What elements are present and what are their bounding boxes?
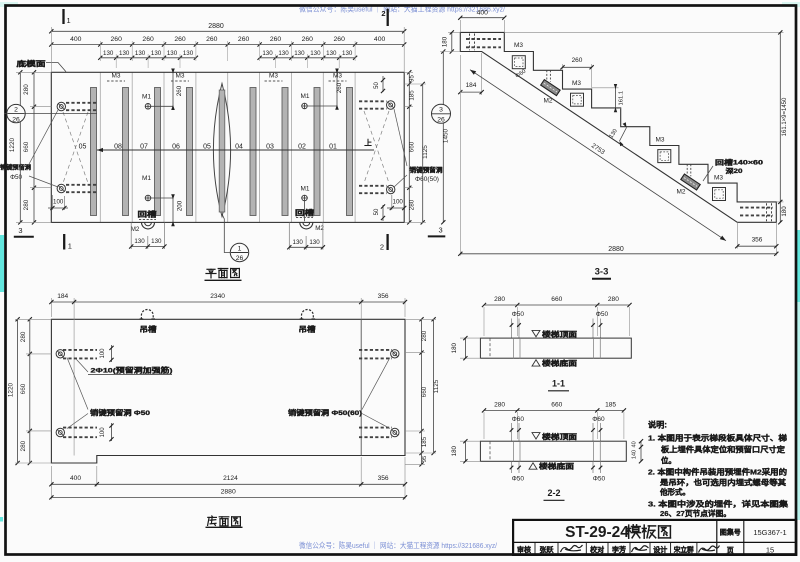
svg-text:回槽: 回槽: [295, 208, 314, 217]
bottom view 184 boundary line: [73, 319, 75, 455]
bottom view anchor top-left: [63, 349, 97, 351]
svg-text:50: 50: [374, 208, 380, 215]
svg-text:660: 660: [551, 296, 562, 303]
svg-text:Φ50: Φ50: [512, 311, 525, 318]
svg-text:楼梯底面: 楼梯底面: [542, 358, 577, 367]
svg-text:185: 185: [605, 401, 616, 408]
svg-text:100: 100: [100, 427, 106, 438]
svg-text:130: 130: [342, 50, 353, 57]
plan top dim extension verticals: [50, 27, 52, 72]
svg-text:楼梯顶面: 楼梯顶面: [542, 330, 577, 339]
section 3-3 dim 161.1 riser: [592, 87, 619, 89]
section 2-2 level mark bottom face: [529, 463, 537, 469]
svg-text:M3: M3: [269, 73, 278, 80]
svg-text:130: 130: [151, 238, 162, 245]
svg-text:15G367-1: 15G367-1: [753, 528, 786, 537]
section 3-3 stair outline: [460, 32, 776, 222]
svg-text:M1: M1: [300, 186, 309, 193]
svg-text:280: 280: [608, 296, 619, 303]
detail bubble 1/26: [222, 214, 230, 253]
svg-text:260: 260: [238, 36, 250, 43]
svg-text:07: 07: [140, 144, 148, 151]
signature scribble 3: [699, 546, 720, 553]
bottom view 356 divider: [360, 319, 362, 455]
section 3-3 M3 anchor box step3: [571, 93, 584, 106]
svg-text:M2: M2: [676, 189, 685, 196]
plan view outline: [51, 72, 404, 222]
svg-text:校对: 校对: [590, 545, 604, 554]
svg-text:05: 05: [79, 144, 87, 151]
plan right extension lines: [404, 71, 413, 73]
plan M2 hook left: [142, 222, 155, 229]
label shang: [365, 139, 371, 145]
plan rail pairs: [91, 88, 97, 216]
detail bubble 3/26: [432, 104, 451, 123]
svg-text:260: 260: [336, 82, 343, 93]
svg-text:26: 26: [437, 117, 445, 124]
svg-text:130: 130: [309, 239, 320, 246]
svg-text:1220: 1220: [9, 137, 16, 152]
svg-text:95: 95: [410, 75, 416, 82]
plan top dim 2880: [51, 30, 404, 32]
section 3-3 dim 180 left: [448, 31, 460, 33]
svg-text:M3: M3: [111, 73, 120, 80]
svg-text:660: 660: [20, 383, 27, 394]
svg-text:ST-29-24: ST-29-24: [565, 524, 629, 541]
svg-text:180: 180: [781, 206, 788, 217]
bottom view bottom dim 400-2124-356: [50, 466, 52, 500]
svg-text:260: 260: [572, 57, 583, 64]
svg-text:底模面: 底模面: [17, 59, 46, 68]
svg-text:张跃: 张跃: [540, 545, 554, 554]
section mark 1 top: [62, 9, 64, 24]
plan up-direction line: [97, 149, 374, 151]
section 1-1 dim 180: [460, 337, 480, 339]
svg-text:95: 95: [422, 456, 428, 462]
svg-text:M1: M1: [300, 93, 309, 100]
svg-text:26: 26: [236, 255, 244, 262]
section 3-3 M2 plate lower on soffit: [681, 174, 700, 190]
svg-text:130: 130: [135, 50, 146, 57]
svg-text:260: 260: [206, 36, 218, 43]
bottom view left extensions: [15, 318, 51, 320]
svg-text:2124: 2124: [223, 475, 238, 482]
svg-text:130: 130: [167, 50, 178, 57]
bottom view right extensions: [405, 318, 436, 320]
bottom view left chain 1220: [17, 319, 19, 463]
cyan smudge top-right corner: [782, 2, 800, 7]
svg-text:185: 185: [421, 436, 428, 447]
svg-text:M2: M2: [543, 98, 552, 105]
svg-text:板上埋件具体定位和预留口尺寸定: 板上埋件具体定位和预留口尺寸定: [661, 444, 786, 454]
svg-text:40: 40: [632, 441, 638, 447]
section 3-3 M3 anchor box step6: [658, 150, 671, 163]
bottom view 100 dim bottom-left: [111, 423, 113, 441]
section 3-3 bottom landing anchor: [740, 207, 773, 209]
plan tread divider lines: [99, 72, 101, 222]
svg-text:06: 06: [172, 144, 180, 151]
svg-text:Φ50: Φ50: [596, 311, 609, 318]
title block bottom row cells: [534, 542, 536, 555]
title block dividers: [513, 541, 796, 543]
svg-text:08: 08: [114, 144, 122, 151]
svg-text:微信公众号：陈昊useful ｜ 网站：大猫工程资源 htt: 微信公众号：陈昊useful ｜ 网站：大猫工程资源 https://32168…: [299, 540, 498, 550]
svg-text:销键预留洞 Φ50(60): 销键预留洞 Φ50(60): [288, 408, 362, 417]
plan title: [206, 269, 216, 278]
section 3-3 dim 2753 diagonal: [470, 70, 726, 241]
svg-text:Φ60(50): Φ60(50): [415, 176, 439, 183]
section 3-3 dim 400 top: [459, 20, 461, 32]
section 3-3 right chain 161.1x9: [504, 31, 783, 33]
title block outer frame: [513, 520, 796, 555]
svg-text:26、27页节点详图。: 26、27页节点详图。: [660, 508, 731, 518]
svg-text:180: 180: [451, 445, 458, 456]
svg-text:Φ50: Φ50: [512, 475, 525, 482]
svg-text:2. 本图中构件吊装用预埋件M2采用的: 2. 本图中构件吊装用预埋件M2采用的: [648, 467, 788, 477]
svg-text:280: 280: [20, 331, 27, 342]
svg-text:位。: 位。: [661, 455, 676, 465]
svg-text:回槽: 回槽: [138, 210, 157, 219]
svg-text:130: 130: [103, 50, 114, 57]
cyan strip left margin: [0, 235, 4, 292]
svg-text:05: 05: [203, 144, 211, 151]
svg-text:回槽140×60: 回槽140×60: [715, 158, 764, 167]
svg-text:2: 2: [381, 9, 385, 18]
section 3-3 dim 2880 bottom: [459, 55, 461, 256]
svg-text:260: 260: [174, 36, 186, 43]
svg-text:Φ60: Φ60: [592, 416, 605, 423]
svg-text:2880: 2880: [208, 23, 224, 30]
svg-text:130: 130: [326, 50, 337, 57]
section 3-3 M3 anchor box step8: [713, 188, 726, 201]
svg-text:销键预留洞: 销键预留洞: [0, 164, 31, 172]
svg-text:130: 130: [294, 50, 305, 57]
svg-text:185: 185: [409, 90, 416, 101]
svg-text:3. 本图中涉及的埋件，详见本图集: 3. 本图中涉及的埋件，详见本图集: [648, 498, 789, 508]
svg-text:M3: M3: [714, 175, 723, 182]
svg-text:吊槽: 吊槽: [299, 325, 316, 334]
svg-text:280: 280: [23, 84, 30, 95]
svg-text:100: 100: [53, 199, 64, 206]
svg-text:260: 260: [142, 36, 154, 43]
plan anchor tie dashed diagonals right: [364, 111, 389, 183]
svg-text:200: 200: [177, 200, 184, 211]
svg-text:280: 280: [20, 440, 27, 451]
section 3-3 dim 356 bottom: [736, 222, 738, 248]
svg-text:楼梯底面: 楼梯底面: [539, 462, 574, 471]
bottom view hanger hook right: [302, 310, 314, 320]
svg-text:356: 356: [378, 293, 389, 300]
svg-text:楼梯顶面: 楼梯顶面: [542, 432, 577, 441]
svg-text:M1: M1: [142, 94, 151, 101]
signature scribble 1: [561, 545, 583, 552]
svg-text:130: 130: [293, 239, 304, 246]
section 2-2 dim 180: [460, 440, 480, 442]
svg-text:3: 3: [439, 107, 443, 114]
bottom view anchor bottom-left: [63, 427, 97, 429]
plan left dim chain 1220: [19, 72, 21, 222]
svg-text:1. 本图用于表示梯段板具体尺寸、梯: 1. 本图用于表示梯段板具体尺寸、梯: [648, 433, 788, 443]
signature scribble 2: [632, 546, 649, 552]
cyan strip right margin faint: [797, 302, 800, 520]
cyan strip right margin: [796, 230, 800, 302]
plan right dim chain 1125: [422, 84, 424, 222]
section 3-3 dim 260 tread: [562, 64, 564, 69]
svg-text:销键预留洞: 销键预留洞: [410, 165, 444, 174]
svg-text:161.1×9=1450: 161.1×9=1450: [782, 97, 788, 136]
plan M2 hook right: [300, 222, 313, 229]
svg-text:M3: M3: [572, 80, 581, 87]
svg-text:280: 280: [494, 296, 505, 303]
bottom view 100 dim top-left: [111, 345, 113, 362]
svg-text:1450: 1450: [443, 128, 450, 143]
svg-text:180: 180: [441, 36, 448, 47]
section 3-3 dim 1450 left chain: [442, 52, 444, 223]
svg-text:M3: M3: [333, 73, 342, 80]
bottom view hanger hook left: [141, 310, 153, 320]
plan left extension lines: [16, 71, 51, 73]
svg-text:130: 130: [278, 50, 289, 57]
svg-text:260: 260: [176, 85, 183, 96]
bottom view left chain 280-660-280: [29, 319, 31, 463]
section 3-3 M3 anchor box step1: [512, 56, 525, 69]
svg-text:280: 280: [409, 199, 416, 210]
svg-text:1: 1: [238, 245, 242, 252]
svg-text:2Φ10(预留洞加强筋): 2Φ10(预留洞加强筋): [91, 365, 173, 374]
section 3-3 dim 184: [481, 53, 483, 95]
svg-text:1: 1: [68, 242, 72, 251]
svg-text:M3: M3: [655, 137, 664, 144]
cyan dash left margin low: [0, 517, 3, 522]
svg-text:280: 280: [421, 330, 428, 341]
svg-text:深20: 深20: [726, 166, 743, 175]
svg-text:130: 130: [310, 50, 321, 57]
svg-text:660: 660: [409, 141, 416, 152]
section 1-1 top dim 280-660-280: [484, 304, 630, 306]
svg-text:260: 260: [270, 36, 282, 43]
svg-text:140: 140: [632, 450, 638, 459]
svg-text:M3: M3: [514, 42, 523, 49]
svg-text:销键预留洞 Φ50: 销键预留洞 Φ50: [90, 408, 150, 417]
svg-text:审核: 审核: [517, 545, 531, 554]
plan anchor upper-left: [66, 102, 97, 104]
svg-text:100: 100: [393, 199, 404, 206]
svg-text:260: 260: [302, 36, 314, 43]
plan anchor lower-right: [359, 185, 387, 187]
section 2-2 top dim 280-660-185: [484, 409, 624, 411]
section mark 2 bottom: [386, 234, 388, 250]
svg-text:260: 260: [334, 36, 346, 43]
svg-text:130: 130: [151, 50, 162, 57]
svg-text:130: 130: [183, 50, 194, 57]
svg-text:1: 1: [67, 16, 71, 25]
plan right dim chain 95-185-660-280: [408, 72, 410, 222]
section 3-3 top landing anchor: [466, 38, 501, 40]
svg-text:他形式。: 他形式。: [659, 487, 690, 497]
svg-text:356: 356: [378, 475, 389, 482]
svg-text:1125: 1125: [422, 145, 429, 159]
svg-text:400: 400: [374, 36, 386, 43]
svg-text:宋立群: 宋立群: [673, 545, 694, 554]
svg-text:02: 02: [298, 144, 306, 151]
bottom view outline: [51, 319, 405, 463]
plan anchor upper-right: [359, 100, 387, 102]
section 3-3 dim 130 inclined: [620, 128, 627, 142]
svg-text:说明:: 说明:: [648, 420, 667, 430]
plan center lens: [213, 84, 230, 217]
bottom view dim 2880: [51, 496, 405, 498]
svg-text:01: 01: [329, 144, 337, 151]
section 1-1 level mark bottom face: [532, 360, 540, 366]
section 3-3 M2 plate upper on soffit: [541, 80, 560, 96]
svg-text:356: 356: [752, 237, 763, 244]
svg-text:M2: M2: [131, 226, 140, 233]
svg-text:180: 180: [451, 342, 458, 353]
svg-text:M3: M3: [175, 73, 184, 80]
svg-text:130: 130: [119, 50, 130, 57]
svg-text:M1: M1: [142, 175, 151, 182]
detail bubble 2/26: [5, 113, 8, 115]
section mark 2 top: [387, 9, 389, 26]
svg-text:李芳: 李芳: [611, 545, 626, 554]
plan top dim row 400/260: [51, 44, 404, 46]
bottom view top dim 184-2340-356: [50, 298, 52, 317]
svg-text:660: 660: [551, 401, 562, 408]
svg-text:2: 2: [14, 107, 18, 114]
svg-text:280: 280: [494, 401, 505, 408]
plan anchor tie dashed diagonals left: [63, 112, 88, 183]
svg-text:1125: 1125: [433, 379, 440, 393]
bottom view right chain 1125: [433, 319, 435, 453]
svg-text:04: 04: [235, 144, 243, 151]
section 2-2 slab bar: [480, 441, 626, 461]
svg-text:130: 130: [262, 50, 273, 57]
section 2-2 level mark top face: [532, 433, 540, 439]
svg-text:100: 100: [100, 348, 106, 359]
plan top dim row 130 pairs: [100, 57, 196, 59]
svg-text:是吊环，也可选用内埋式螺母等其: 是吊环，也可选用内埋式螺母等其: [659, 477, 787, 487]
svg-text:3-3: 3-3: [595, 267, 609, 278]
svg-text:图集号: 图集号: [720, 528, 741, 537]
section 1-1 slab bar: [480, 338, 631, 358]
plan rails inside lens: [219, 90, 225, 212]
plan 50 dims right: [382, 76, 384, 92]
svg-text:130: 130: [134, 238, 145, 245]
svg-text:吊槽: 吊槽: [140, 325, 157, 334]
svg-text:280: 280: [23, 199, 30, 210]
svg-text:2-2: 2-2: [547, 488, 560, 498]
svg-text:2880: 2880: [608, 246, 624, 253]
bottom view anchor top-right: [359, 349, 392, 351]
svg-text:设计: 设计: [653, 545, 667, 554]
bottom view anchor bottom-right: [359, 427, 392, 429]
svg-text:161.1: 161.1: [619, 91, 625, 106]
svg-text:15: 15: [766, 546, 774, 555]
svg-text:页: 页: [727, 547, 734, 555]
svg-text:2880: 2880: [221, 488, 236, 495]
plan M2 right 130 dims: [288, 222, 290, 249]
svg-text:50: 50: [374, 82, 380, 89]
svg-text:3: 3: [18, 226, 22, 235]
svg-text:260: 260: [111, 36, 123, 43]
svg-text:1220: 1220: [7, 382, 14, 397]
cyan smudge top-left corner: [0, 2, 18, 7]
svg-text:26: 26: [12, 116, 20, 123]
bottom view right chain 280-660-185-95: [421, 319, 423, 464]
bottom view title: [208, 516, 217, 525]
svg-text:3: 3: [439, 226, 443, 235]
section 1-1 level mark top face: [532, 330, 540, 336]
svg-text:184: 184: [57, 293, 68, 300]
plan anchor lower-left: [66, 184, 97, 186]
svg-text:1-1: 1-1: [552, 379, 565, 389]
svg-text:660: 660: [23, 141, 30, 152]
svg-text:400: 400: [477, 10, 489, 17]
svg-text:660: 660: [421, 386, 428, 397]
svg-text:Φ50: Φ50: [593, 475, 606, 482]
plan left dim chain 280-660-280: [33, 72, 35, 222]
svg-text:Φ60: Φ60: [512, 416, 525, 423]
svg-text:400: 400: [70, 36, 82, 43]
svg-text:400: 400: [70, 475, 81, 482]
section mark 1 bottom: [63, 234, 65, 250]
svg-text:184: 184: [466, 82, 477, 89]
plan M2 left 130 dims: [130, 222, 132, 249]
svg-text:03: 03: [266, 144, 274, 151]
svg-text:2: 2: [380, 243, 384, 252]
section 2-2 dim 40-140 right: [640, 441, 642, 461]
svg-text:2340: 2340: [210, 293, 225, 300]
